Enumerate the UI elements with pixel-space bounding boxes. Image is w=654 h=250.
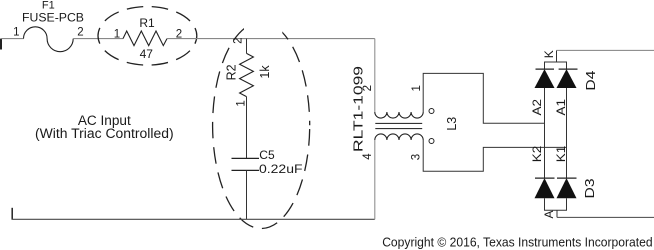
- svg-text:2: 2: [77, 26, 83, 38]
- diode D3 left cathode bar: [535, 177, 555, 179]
- svg-text:A1: A1: [554, 99, 568, 116]
- wire bridge right column A1-K1: [566, 88, 568, 178]
- svg-text:0.22uF: 0.22uF: [259, 162, 303, 176]
- wire R2 to C5: [246, 97, 248, 159]
- node AC-L terminal stub: [0, 39, 2, 50]
- svg-text:1: 1: [411, 85, 423, 91]
- resistor R2: [246, 39, 248, 54]
- svg-text:(With Triac Controlled): (With Triac Controlled): [35, 126, 174, 141]
- diode D4 common cathode wire K: [545, 62, 567, 69]
- svg-text:A2: A2: [530, 99, 544, 116]
- wire down to transformer pin2: [374, 39, 376, 112]
- svg-text:R2: R2: [225, 64, 239, 80]
- fuse F1: [24, 27, 74, 52]
- node AC-N terminal stub: [11, 208, 13, 220]
- svg-text:2: 2: [362, 85, 374, 91]
- wire C5 to bottom: [246, 170, 248, 219]
- wire pin1 to bridge: [423, 73, 544, 123]
- resistor R1: [123, 31, 167, 46]
- svg-text:47: 47: [140, 47, 154, 61]
- wire: [167, 38, 375, 40]
- capacitor C5: [232, 157, 260, 159]
- wire A output: [557, 216, 654, 218]
- diode D3 right cathode bar: [557, 177, 577, 179]
- svg-text:R1: R1: [139, 16, 155, 30]
- svg-text:FUSE-PCB: FUSE-PCB: [22, 13, 84, 25]
- diode D4 left cathode bar: [536, 68, 555, 70]
- svg-text:A: A: [542, 210, 556, 218]
- svg-text:4: 4: [362, 153, 374, 160]
- svg-text:K2: K2: [530, 145, 544, 162]
- phase dot top: [429, 109, 434, 114]
- wire bridge left column A2-K2: [544, 88, 546, 178]
- wire: [1, 38, 24, 40]
- svg-text:D3: D3: [582, 179, 597, 199]
- svg-text:K1: K1: [554, 145, 568, 162]
- diode D3 right triangle: [557, 178, 577, 198]
- svg-text:C5: C5: [259, 148, 275, 162]
- svg-text:F1: F1: [42, 0, 55, 12]
- svg-text:K: K: [542, 50, 556, 58]
- mask widen top gap of ellipse2: [244, 18, 282, 37]
- diode D3 left triangle: [535, 178, 555, 198]
- svg-text:L3: L3: [445, 117, 459, 131]
- dashed ellipse around R2 C5: [213, 22, 310, 228]
- phase dot bottom: [429, 139, 434, 144]
- diode D4 right cathode bar: [559, 68, 578, 70]
- diode D4 left triangle: [535, 69, 555, 88]
- svg-text:D4: D4: [583, 71, 598, 91]
- svg-text:Copyright © 2016, Texas Instru: Copyright © 2016, Texas Instruments Inco…: [382, 236, 652, 250]
- wire pin3 to bridge: [423, 140, 566, 171]
- diode D4 right triangle: [557, 69, 577, 88]
- wire K output: [557, 49, 654, 51]
- svg-text:3: 3: [410, 154, 422, 160]
- wire: [73, 38, 123, 40]
- transformer L3 winding bottom: [375, 134, 423, 140]
- transformer L3 winding top: [375, 112, 423, 118]
- wire D3 anodes common A: [545, 198, 567, 210]
- dashed ellipse around R1: [98, 7, 197, 66]
- svg-text:1k: 1k: [258, 65, 272, 79]
- svg-text:1: 1: [236, 100, 248, 106]
- wire up to transformer pin4: [374, 140, 376, 219]
- svg-text:1: 1: [114, 29, 120, 41]
- wire bottom: [12, 218, 375, 220]
- svg-text:RLT1-1099: RLT1-1099: [350, 66, 365, 152]
- svg-text:1: 1: [13, 26, 19, 38]
- transformer core: [375, 122, 422, 124]
